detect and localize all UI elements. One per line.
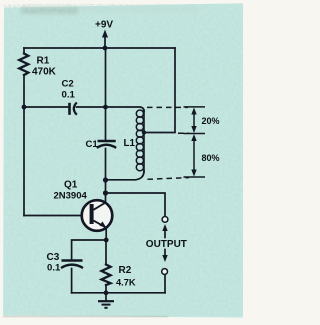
svg-text:0.1: 0.1: [47, 262, 61, 273]
svg-text:0.1: 0.1: [62, 89, 76, 100]
svg-text:2N3904: 2N3904: [54, 191, 88, 202]
svg-text:OUTPUT: OUTPUT: [146, 239, 187, 250]
svg-text:4.7K: 4.7K: [116, 277, 136, 287]
svg-text:R2: R2: [119, 265, 132, 276]
svg-text:C2: C2: [62, 79, 74, 90]
svg-text:470K: 470K: [32, 66, 57, 77]
svg-text:L1: L1: [124, 138, 136, 149]
svg-text:+9V: +9V: [95, 20, 113, 31]
svg-text:80%: 80%: [202, 153, 220, 163]
svg-text:Q1: Q1: [64, 180, 78, 191]
svg-text:20%: 20%: [202, 116, 220, 126]
svg-text:C1: C1: [86, 139, 99, 150]
svg-text:R1: R1: [37, 55, 50, 66]
